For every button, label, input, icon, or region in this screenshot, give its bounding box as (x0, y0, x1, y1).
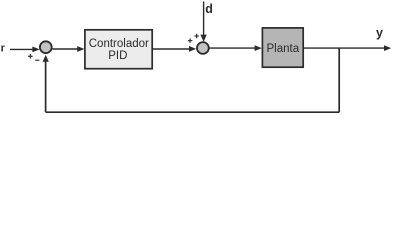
svg-text:Planta: Planta (266, 43, 299, 55)
svg-text:y: y (376, 26, 383, 40)
plus sign above-left of summing junction 2 (194, 34, 198, 38)
wire feedback bottom run (46, 111, 340, 113)
svg-text:r: r (1, 43, 6, 55)
wire feedback tap down from output (338, 48, 340, 112)
summing junction 1 (40, 41, 52, 53)
wire Planta to output y (304, 45, 391, 51)
block Planta (262, 28, 303, 67)
summing junction 2 (197, 42, 209, 54)
wire feedback riser to summing junction 1 (43, 55, 49, 112)
svg-text:PID: PID (108, 50, 127, 62)
svg-text:Controlador: Controlador (89, 38, 149, 50)
wire summing junction 1 to PID block (52, 46, 84, 52)
wire d to summing junction 2 (200, 2, 206, 42)
block Controlador PID (85, 30, 152, 69)
plus sign left of summing junction 2 (188, 38, 192, 42)
wire summing junction 2 to Planta block (210, 45, 262, 51)
plus sign at summing junction 1 (28, 54, 32, 58)
wire r to summing junction 1 (10, 47, 40, 53)
minus sign at summing junction 1 (35, 59, 39, 61)
wire PID block to summing junction 2 (153, 46, 196, 52)
svg-text:d: d (205, 2, 213, 16)
